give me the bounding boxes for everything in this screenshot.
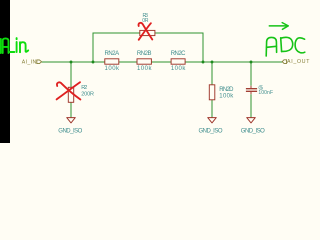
resistor RN2D bbox=[209, 85, 234, 100]
svg-text:100k: 100k bbox=[219, 93, 234, 99]
resistor R3 bbox=[140, 13, 155, 35]
svg-text:AI_IN: AI_IN bbox=[22, 60, 37, 66]
ground GND_ISO middle bbox=[199, 118, 223, 135]
ground GND_ISO right bbox=[241, 118, 265, 135]
wire C5 branch bbox=[250, 62, 252, 118]
svg-text:GND_ISO: GND_ISO bbox=[58, 128, 82, 134]
svg-text:RN2D: RN2D bbox=[219, 87, 234, 93]
annotation arrow bbox=[269, 23, 288, 30]
resistor RN2C bbox=[171, 51, 187, 72]
wire R2 branch bbox=[70, 62, 72, 118]
wire RN2D branch bbox=[211, 62, 213, 118]
resistor R2 bbox=[68, 85, 94, 102]
ground GND_ISO left bbox=[58, 118, 82, 135]
svg-text:RN2A: RN2A bbox=[104, 51, 119, 57]
junction bbox=[250, 61, 253, 64]
junction bbox=[211, 61, 214, 64]
svg-text:0R: 0R bbox=[142, 18, 149, 24]
resistor RN2A bbox=[104, 51, 120, 72]
black sidebar bbox=[0, 0, 10, 143]
junction bbox=[92, 61, 95, 64]
svg-text:GND_ISO: GND_ISO bbox=[199, 128, 223, 134]
annotation big text ADC bbox=[266, 37, 305, 56]
junction bbox=[70, 61, 73, 64]
svg-text:100nF: 100nF bbox=[258, 90, 273, 96]
wire main bus bbox=[42, 61, 283, 63]
svg-text:200R: 200R bbox=[81, 91, 94, 97]
hierarchical label AI_OUT bbox=[282, 59, 310, 65]
svg-text:100k: 100k bbox=[105, 66, 121, 72]
capacitor C5 bbox=[246, 85, 273, 96]
junction bbox=[202, 61, 205, 64]
DNP mark R2 bbox=[57, 82, 81, 99]
svg-text:GND_ISO: GND_ISO bbox=[241, 128, 265, 134]
hierarchical label AI_IN bbox=[22, 60, 42, 66]
svg-text:100k: 100k bbox=[137, 66, 153, 72]
DNP mark R3 bbox=[139, 23, 153, 40]
annotation big text AI_in bbox=[1, 38, 28, 53]
svg-text:RN2B: RN2B bbox=[137, 51, 152, 57]
svg-text:RN2C: RN2C bbox=[171, 51, 186, 57]
svg-text:100k: 100k bbox=[171, 66, 187, 72]
wire R3 bypass bbox=[93, 33, 203, 62]
svg-text:R2: R2 bbox=[81, 85, 87, 91]
resistor RN2B bbox=[137, 51, 153, 72]
svg-text:AI_OUT: AI_OUT bbox=[287, 59, 310, 65]
